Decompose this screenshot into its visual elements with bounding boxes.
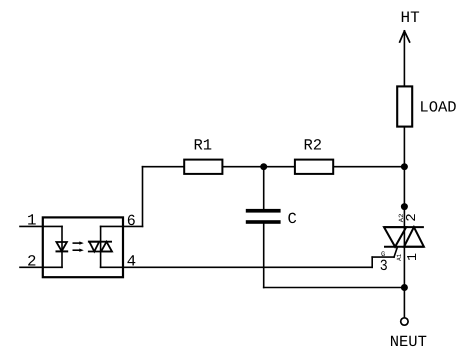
capacitor C: [246, 209, 281, 224]
svg-text:G: G: [381, 251, 385, 259]
svg-text:A1: A1: [396, 254, 403, 261]
svg-text:2: 2: [405, 213, 420, 222]
svg-text:NEUT: NEUT: [390, 333, 427, 351]
svg-text:R1: R1: [194, 136, 213, 154]
resistor R1: [184, 160, 222, 174]
triac Q1: [384, 227, 424, 247]
HT terminal arrow: [400, 31, 410, 42]
opto triac symbol: [88, 242, 112, 252]
wire HT junction to triac A2 dot: [403, 167, 405, 207]
junction HT/R2/LOAD: [401, 163, 408, 170]
wire gate step horizontal: [372, 256, 394, 258]
wire LOAD to HT junction: [403, 128, 405, 167]
wire HT arrow to LOAD: [403, 31, 405, 86]
svg-text:R2: R2: [304, 136, 323, 154]
svg-text:LOAD: LOAD: [419, 99, 456, 117]
wire riser to R1: [143, 166, 185, 168]
wire gate step vertical: [371, 257, 373, 267]
wire C junction to capacitor: [263, 167, 265, 209]
coupling arrows: [73, 241, 84, 252]
optocoupler U1 box: [43, 217, 123, 277]
svg-text:2: 2: [27, 252, 37, 270]
junction R1/R2/C: [260, 163, 267, 170]
resistor R2: [295, 160, 333, 174]
svg-text:1: 1: [406, 253, 421, 261]
NEUT open terminal: [401, 318, 408, 325]
wire R1 to C junction: [224, 166, 264, 168]
wire triac vertical A2 to A1: [403, 207, 405, 288]
wire gate lead diagonal: [394, 247, 398, 257]
wire LED vertical: [61, 226, 63, 267]
svg-text:HT: HT: [401, 9, 420, 27]
wire pin 2: [20, 266, 62, 268]
svg-text:4: 4: [127, 253, 137, 271]
wire pin 6: [101, 225, 143, 227]
wire C junction to R2: [264, 166, 294, 168]
wire opto triac vertical: [100, 226, 102, 267]
svg-text:A2: A2: [398, 214, 405, 223]
junction triac A2: [401, 203, 408, 210]
wire A1 junction to NEUT terminal: [403, 288, 405, 318]
resistor LOAD: [397, 86, 412, 126]
svg-text:3: 3: [380, 257, 388, 275]
wire bottom rail to NEUT junction: [264, 287, 405, 289]
wire pin 4 to gate run: [101, 266, 373, 268]
wire pin6 riser vertical: [142, 167, 144, 227]
junction NEUT/C/A1: [401, 284, 408, 291]
svg-text:C: C: [288, 210, 297, 228]
svg-text:6: 6: [127, 212, 136, 230]
wire pin 1: [20, 225, 62, 227]
wire R2 to HT junction: [334, 166, 404, 168]
wire capacitor to bottom rail: [263, 224, 265, 288]
svg-text:1: 1: [27, 212, 37, 230]
LED D1: [56, 242, 69, 251]
